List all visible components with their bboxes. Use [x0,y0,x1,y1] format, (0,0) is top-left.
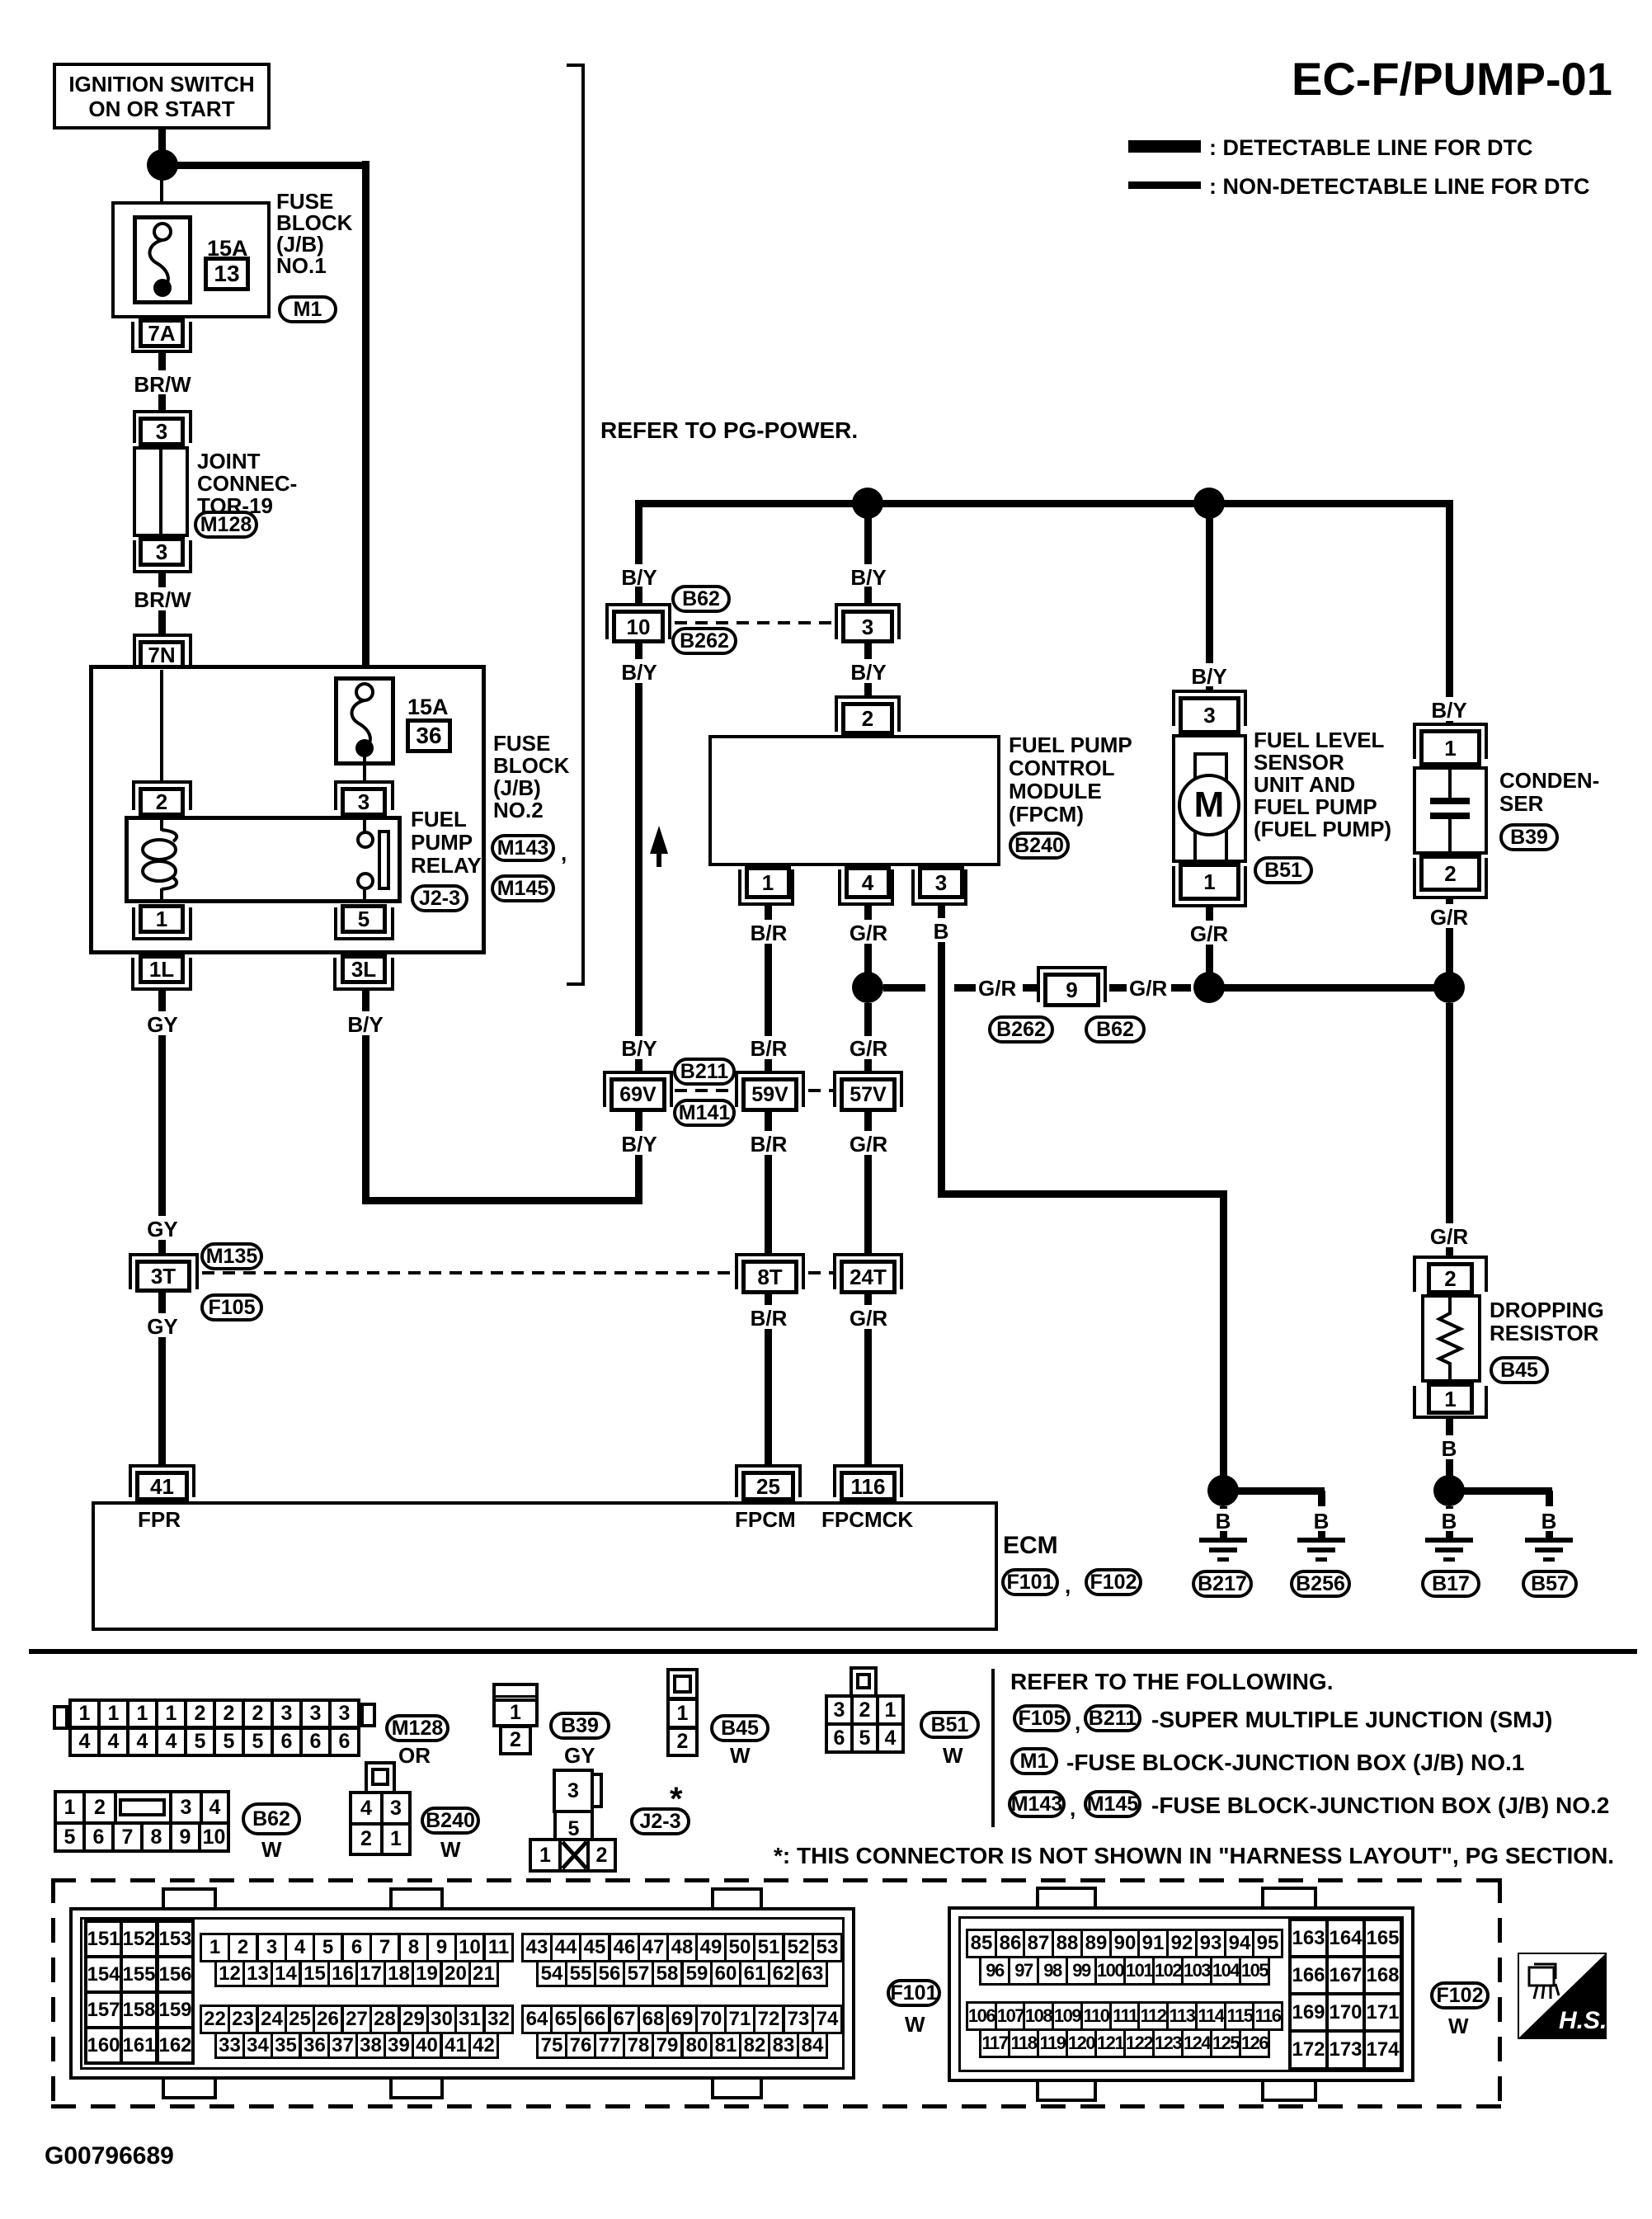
fuel pump motor M [1178,774,1240,836]
capacitor symbol [1448,770,1452,799]
fuse number box 13 [204,257,250,291]
wire below joint connector [158,573,166,587]
connector view J2-3 [553,1769,594,1813]
wire label B/Y below 69V [621,1133,657,1156]
wire BR/W to 7N [158,610,166,634]
fuse number box 36 [406,718,452,753]
wire condenser node down [1446,1003,1453,1223]
connector view B45 oval [710,1714,770,1742]
wire fuse 36 to relay pin 3 [363,756,366,781]
wire into 3 [864,587,872,603]
dropping resistor pin 2 [1413,1256,1488,1259]
connector view B39 oval [549,1712,610,1740]
fuse block no.2 label [493,733,569,822]
wire label B/Y below 3L [347,1013,383,1036]
ground symbol B217 [1199,1538,1247,1543]
wire label G/R right of 9 [1129,977,1167,1000]
FPCM pin 3 [918,866,964,899]
connector 41 (ECM FPR) [129,1464,195,1468]
wire label B/Y above condenser [1431,699,1466,722]
ground symbol B256 [1297,1538,1345,1543]
connector oval M128 (joint) [194,511,258,539]
wire bus down to fuel pump [1206,507,1213,663]
F101 pins 64-74 [521,2005,553,2034]
dropping resistor pin 1 [1427,1383,1474,1415]
relay pin 1 [139,904,185,934]
fuse 13 symbol box [133,215,192,304]
F101 pin grid 151-162 [84,1920,123,1958]
dropping resistor label [1490,1298,1604,1345]
node dot ground right pair [1433,1475,1465,1506]
figure number [45,2143,174,2170]
connector 59V [735,1071,805,1074]
ignition switch text [68,73,254,96]
wire label B (B256) [1314,1510,1330,1533]
wire bus corner to condenser [1446,500,1453,697]
legend detectable line bar [1128,140,1201,153]
node dot bus-FPCM [852,488,883,519]
wire below 8T [765,1294,772,1305]
wire B/R to 8T [765,1155,772,1253]
wire label G/R left of 9 [978,977,1016,1000]
FPCM label [1009,733,1132,826]
refer M143 oval [1008,1790,1066,1818]
connector oval M1 [278,295,337,323]
wire label BR/W (1) [134,373,191,396]
wire B217 stub [1220,1506,1227,1509]
wire G/R to node [864,944,872,973]
wire label B/R (1) [751,921,788,945]
node dot G/R fuel pump [1193,972,1225,1003]
wire label B/Y above 69V [621,1037,657,1060]
wire label GY (2) [147,1218,178,1241]
connector 3 (FPCM B/Y) [835,603,901,606]
connector view F101 color W [905,2013,925,2036]
asterisk note text [774,1844,1614,1868]
relay contact circle lower [356,872,374,890]
relay contact wire bottom [363,889,366,900]
wire label B/Y above 10 [621,566,657,589]
refer F105 oval [1013,1704,1071,1732]
wire 69V to corner [635,1155,642,1204]
node dot bus-fuel-pump [1193,488,1225,519]
arrow up (pg-power direction) [650,826,668,854]
wire B256 to ground [1318,1531,1325,1539]
connector oval F105 (3T) [200,1293,263,1322]
fuel pump pin 3 [1172,690,1247,693]
dashed line 10 to 3 [675,621,835,624]
connector view M128 oval [385,1714,449,1742]
wire label G/R below fuel pump [1190,922,1228,945]
legend non-detectable line bar [1128,181,1201,189]
dashed line 69V to 59V [675,1089,737,1092]
connector oval B240 (FPCM) [1009,832,1070,860]
wire below resistor [1446,1419,1453,1435]
wire GY down to 3T [158,1035,166,1216]
connector 7A [139,318,185,348]
wire label G/R (1) [850,921,887,945]
connector oval F101 (ECM) [1001,1568,1059,1596]
wire into pin 3 fuel pump [1206,686,1213,693]
FPCM pin 2 [835,695,901,699]
F101 pins 54-63 [536,1960,567,1987]
relay pin 5 [341,904,387,934]
connector view F101 oval [887,1979,941,2007]
wire label B/R below 8T [751,1307,788,1330]
wire label B/R above 59V [751,1037,788,1060]
resistor zigzag [1439,1298,1461,1379]
connector view F102 oval [1430,1981,1490,2009]
connector view B62 color W [261,1838,282,1861]
connector view B45 color W [730,1744,751,1767]
F102 pins 96-105 [979,1956,1010,1986]
wire B down [938,942,945,1197]
connector view B51 oval [920,1711,980,1739]
connector view B240 color W [440,1838,461,1861]
wire label G/R below condenser [1430,906,1468,929]
bracket refer-to-pg-power [581,64,585,986]
connector view B51 color W [943,1744,963,1767]
relay pin 3 [334,780,394,784]
connector 9 (B262/B62) [1037,966,1107,969]
separator line [29,1649,1637,1654]
F102 pins 106-116 [966,2001,997,2031]
wire G/R dash b [1023,984,1040,992]
relay coil wire top [160,820,163,831]
wire G/R dash d [1171,984,1191,992]
connector 3T [129,1253,199,1256]
wire B217 to ground [1220,1531,1227,1539]
wire below fuel pump pin1 [1206,907,1213,921]
ECM label [1003,1533,1058,1559]
wire B to ground node [1446,1459,1453,1477]
connector view B51 [850,1666,878,1698]
wire node to fuse block [160,168,163,224]
dashed line 8T to 24T [808,1271,833,1274]
connector oval B39 (condenser) [1499,823,1559,851]
joint connector-19 label [197,450,297,517]
connector 7N [133,634,192,637]
connector view B62 [54,1790,86,1825]
ECM pin label FPCMCK [821,1508,913,1531]
wire label G/R above 57V [850,1037,887,1060]
connector 1L [139,954,185,984]
dashed line 59V to 57V [808,1089,833,1092]
dropping resistor body [1421,1294,1481,1383]
wire bus B/Y horizontal [635,500,1453,507]
relay coil wire bottom [160,888,163,900]
dashed line 3T to 8T [202,1271,735,1274]
wire branch to B256 [1223,1487,1325,1495]
fuel level sensor label [1254,729,1391,841]
fuel level sensor body [1172,734,1247,863]
connector oval J2-3 (relay) [411,884,468,912]
F102 pins 117-126 [979,2028,1010,2058]
relay coil [162,830,176,841]
connector oval F102 (ECM) [1085,1568,1142,1596]
F101 pins 33-42 [214,2032,245,2059]
connector view F102 color W [1448,2014,1469,2038]
divider line bottom [991,1669,995,1827]
wire below 3T [158,1293,166,1313]
refer B211 oval [1084,1704,1141,1732]
connector oval B51 (fuel pump) [1254,856,1313,884]
wire label B/R below 59V [751,1133,788,1156]
refer SMJ text [1151,1708,1552,1732]
fuse 36 symbol box [334,676,395,766]
wire below condenser [1446,899,1453,904]
connector 3 (joint connector top) [133,410,192,413]
connector oval B62 (pair top) [671,585,731,613]
connector view J2-3 asterisk [670,1782,683,1817]
joint connector-19 body [133,446,189,537]
connector view B39 [492,1683,539,1727]
wire corner B/Y horizontal [362,1197,642,1204]
wire G/R to ECM 116 [864,1329,872,1468]
wire into condenser pin1 [1446,721,1453,726]
refer JB1 text [1066,1750,1524,1775]
title EC-F/PUMP-01 [1292,54,1612,104]
wire below 24T [864,1294,872,1305]
fuel pump pin 1 [1179,863,1240,901]
wire B57 to ground [1546,1531,1553,1539]
wire label G/R above resistor [1430,1225,1468,1248]
connector oval B17 [1421,1570,1480,1598]
condenser label [1499,769,1599,815]
relay pin 2 [132,780,192,784]
connector 8T [735,1253,805,1256]
wire B corner right [938,1190,1227,1198]
ECM pin label FPR [138,1508,181,1531]
F102 pin grid 163-174 [1288,1918,1329,1958]
wire G/R dash a [954,984,976,992]
fuse 13 value 15A [207,237,248,261]
wire label B/Y above pin 2 [850,661,886,684]
connector oval B57 [1522,1570,1578,1598]
connector view M128 color OR [398,1744,431,1767]
connector oval M143 [491,834,555,862]
connector 3 (joint connector bottom) [139,537,185,567]
wire label B below pin3 [934,920,949,943]
condenser body [1413,766,1488,855]
connector 116 (ECM FPCMCK) [833,1464,903,1468]
ignition switch box [53,63,271,130]
wire to G/R node [1206,945,1213,973]
connector view F102 outline [948,1906,1414,2082]
wire below 57V [864,1112,872,1131]
F101 pins 22-32 [200,2005,230,2034]
wire 10 down [635,643,642,659]
connector oval B211 [673,1058,736,1086]
refer to the following text [1010,1670,1333,1694]
connector 69V [603,1071,673,1074]
connector 3L [341,954,387,984]
connector oval B262 (pair bottom) [671,627,737,655]
wire into 69V [635,1059,642,1071]
refer to pg-power text [600,418,858,443]
connector oval M135 [200,1242,263,1270]
wire BR/W to joint connector [158,394,166,410]
wire 1L down [158,991,166,1011]
connector view B62 oval [242,1802,301,1835]
wire B17 stub [1446,1506,1453,1509]
wire below 59V [765,1112,772,1131]
fuel pump plunger [1193,752,1228,863]
condenser pin 1 [1413,723,1488,726]
connector 10 (B62/B262) [605,603,671,606]
F101 pins 75-84 [536,2032,567,2059]
wire G/R node stub right [883,984,925,992]
FPCM box [708,735,1000,866]
relay contact bar [378,830,390,890]
connector oval B256 [1290,1570,1351,1598]
F101 pins 12-21 [214,1960,245,1987]
connector 25 (ECM FPCM) [735,1464,802,1468]
node dot G/R below FPCM [852,972,883,1003]
legend detectable text [1209,136,1532,160]
wire into 59V [765,1059,772,1071]
fuel pump relay label [411,808,482,877]
connector oval M141 [673,1099,736,1127]
connector view F101 outline [69,1907,855,2080]
wire branch to B57 [1449,1487,1552,1495]
wire below 69V [635,1112,642,1131]
connector view B39 color GY [564,1744,595,1767]
F101 pins 43-53 [521,1933,553,1962]
wire to condenser node [1446,928,1453,973]
connector 24T [833,1253,903,1256]
refer M1 oval [1010,1747,1058,1775]
wire B/R to ECM 25 [765,1329,772,1468]
wire into dropping resistor [1446,1247,1453,1256]
relay contact wire top [363,820,366,832]
wire into pin 2 [864,683,872,695]
wire label B below resistor [1442,1437,1457,1460]
wire 3L down [362,991,369,1011]
connector 57V [833,1071,903,1074]
wire label B/Y above fuel pump [1191,665,1226,688]
fuse 13 element curve [154,224,171,240]
wire bus top [162,162,369,169]
connector view B240 oval [421,1807,480,1835]
wire label BR/W (2) [134,588,191,611]
node dot ground left pair [1207,1475,1239,1506]
wire 7A down [158,353,166,370]
refer JB2 text [1151,1793,1609,1818]
relay contact circle upper [356,831,374,849]
ground symbol B57 [1525,1538,1573,1543]
refer M145 oval [1084,1790,1141,1818]
wire G/R node to condenser node [1209,984,1449,992]
F101 pins 1-11 [200,1933,230,1962]
connector oval B217 [1192,1570,1253,1598]
wire G/R to 24T [864,1155,872,1253]
fuel pump relay box [125,816,402,903]
wire label B (B57) [1541,1510,1557,1533]
wire pin1 down [765,906,772,920]
wire label B/Y above 3 [850,566,886,589]
wire label GY (1) [147,1013,178,1036]
wire B/R to 59V [765,944,772,1036]
wire B/Y into 10 [635,587,642,603]
wire ignition switch to node [158,130,166,152]
F102 pins 85-95 [966,1929,997,1958]
wire pin3 down [938,906,945,918]
wire G/R dash c [1109,984,1127,992]
wire 7N to relay pin 2 [160,670,163,781]
wire label G/R below 57V [850,1133,887,1156]
wire 3L to corner [362,1035,369,1200]
wire to fuse 36 (vertical x443) [362,161,369,678]
connector view J2-3 oval [630,1807,690,1835]
wire 3 down [864,643,872,659]
connector oval B45 (resistor) [1490,1356,1549,1384]
H.S. logo [1518,1953,1607,2039]
ground symbol B17 [1425,1538,1473,1543]
connector oval B262 (9 left) [988,1015,1054,1044]
wire label G/R below 24T [850,1307,887,1330]
wire label B (B217) [1216,1510,1231,1533]
wire bus to 3-connector [864,507,872,564]
wire label B (B17) [1442,1510,1457,1533]
condenser pin 2 [1419,855,1481,892]
legend non-detectable text [1209,175,1589,199]
wire label B/Y below 10 [621,661,657,684]
wire into 57V [864,1059,872,1071]
wire bus corner down to 10 [635,500,642,564]
wire B down to ground node [1220,1194,1227,1477]
connector view B45 [666,1668,699,1700]
connector oval M145 [491,874,555,902]
dashed box ECM connectors [51,1878,1502,1882]
connector view M128 [53,1705,68,1730]
fuse block no.1 label [276,191,352,276]
FPCM pin 4 [845,866,891,899]
ECM box [92,1501,998,1631]
wire label GY (3) [147,1315,178,1338]
connector view B240 [365,1761,396,1794]
ECM pin label FPCM [735,1508,796,1531]
node junction dot top-left [147,149,178,181]
fuse 36 element curve [356,684,373,700]
wire B17 to ground [1446,1531,1453,1539]
node dot G/R condenser [1433,972,1465,1003]
fuse block J/B no.2 box [89,665,486,954]
connector oval B62 (9 right) [1085,1015,1146,1044]
wire GY to ECM 41 [158,1337,166,1468]
wire pin4 down [864,906,872,920]
FPCM pin 1 [745,866,791,899]
wire GY above 3T [158,1240,166,1253]
fuse block J/B no.1 box [111,201,271,318]
J2-3 X cell diagonals [562,1842,586,1868]
wire G/R node down [864,1003,872,1036]
fuse 36 value 15A [407,695,449,719]
